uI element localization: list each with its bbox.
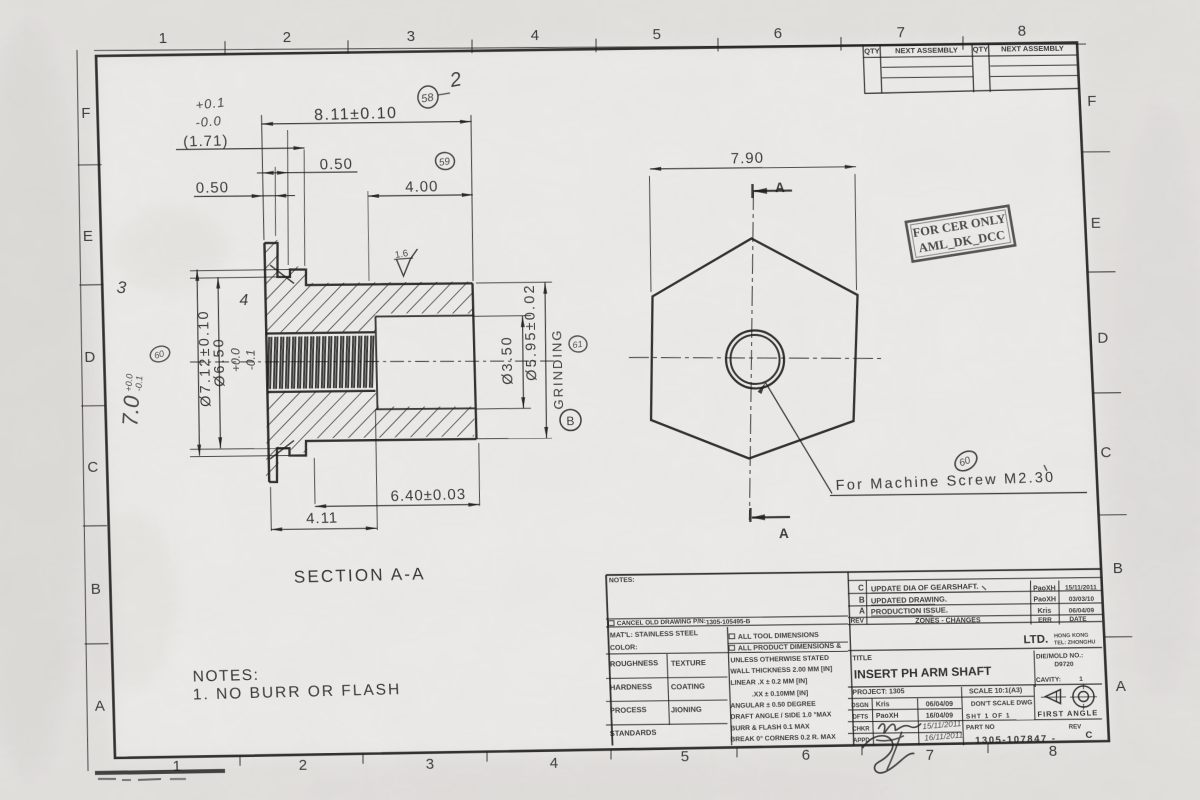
- balloon B: [560, 409, 582, 430]
- svg-text:A: A: [95, 698, 105, 715]
- zone ticks top edge: [224, 41, 227, 55]
- handwritten 7.0 +0.0/-0.1 far left: [117, 373, 145, 427]
- svg-text:DIE/MOLD NO.:: DIE/MOLD NO.:: [1036, 652, 1084, 660]
- dim 6.40: [314, 458, 316, 504]
- circled 60 near hex: [951, 447, 980, 475]
- svg-text:ROUGHNESS: ROUGHNESS: [610, 658, 659, 668]
- svg-text:NOTES:: NOTES:: [609, 577, 635, 585]
- svg-text:4.11: 4.11: [306, 510, 339, 528]
- circled 59: [435, 151, 456, 170]
- svg-text:C: C: [1085, 730, 1092, 741]
- svg-text:E: E: [83, 228, 93, 245]
- svg-text:8.11±0.10: 8.11±0.10: [314, 105, 398, 124]
- svg-text:PART NO: PART NO: [966, 724, 995, 732]
- hexagon outline: [646, 237, 862, 459]
- svg-text:16/04/09: 16/04/09: [926, 712, 954, 719]
- svg-text:QTY: QTY: [973, 45, 989, 54]
- dim 4.11: [270, 487, 272, 531]
- svg-text:GRINDING: GRINDING: [549, 328, 566, 409]
- projection target symbol: [1073, 686, 1095, 707]
- cancel old drawing row: [606, 616, 848, 619]
- svg-text:(1.71): (1.71): [183, 132, 229, 150]
- svg-text:7.0: 7.0: [117, 394, 144, 427]
- svg-text:B: B: [1113, 560, 1123, 577]
- svg-text:TEL: ZHONGHU: TEL: ZHONGHU: [1054, 639, 1096, 646]
- svg-text:.XX ± 0.10MM [IN]: .XX ± 0.10MM [IN]: [752, 690, 808, 698]
- handwritten tick rev C row: [982, 586, 986, 590]
- dim dia 3.50: [474, 315, 531, 318]
- svg-text:HARDNESS: HARDNESS: [610, 682, 652, 692]
- svg-text:Kris: Kris: [1038, 608, 1052, 615]
- svg-text:1305-105495-B: 1305-105495-B: [706, 618, 751, 626]
- svg-text:8: 8: [1017, 23, 1026, 40]
- left column cells: [727, 627, 731, 745]
- flange chamfer top: [270, 265, 294, 284]
- svg-text:NEXT ASSEMBLY: NEXT ASSEMBLY: [895, 46, 958, 56]
- dim 8.11+-0.10: [262, 121, 472, 124]
- first angle cell: [1033, 685, 1036, 720]
- svg-text:59: 59: [438, 156, 451, 169]
- svg-text:COATING: COATING: [671, 682, 706, 692]
- svg-text:A: A: [775, 180, 785, 195]
- svg-text:SHT 1 OF 1: SHT 1 OF 1: [966, 712, 1011, 720]
- hex centerline vertical: [741, 190, 763, 520]
- dim 4.00: [368, 195, 473, 196]
- svg-text:06/04/09: 06/04/09: [926, 701, 954, 708]
- svg-text:7: 7: [896, 24, 905, 41]
- svg-text:REV: REV: [850, 617, 864, 624]
- circled 58: [416, 84, 440, 109]
- dim 0.50 upper: [257, 172, 358, 173]
- svg-text:PROJECT: 1305: PROJECT: 1305: [852, 688, 904, 696]
- svg-text:JIONING: JIONING: [671, 705, 702, 715]
- sheet outer margin line left: [69, 50, 97, 771]
- svg-text:B: B: [859, 595, 865, 604]
- leader for machine screw: [765, 382, 832, 494]
- title block outer lines: [606, 575, 613, 746]
- project / scale row: [848, 696, 1034, 698]
- svg-text:DSGN: DSGN: [851, 703, 869, 709]
- tool dimensions checkboxes: [728, 642, 849, 643]
- svg-text:HONG KONG: HONG KONG: [1054, 633, 1089, 640]
- zone ticks right edge: [1082, 151, 1110, 153]
- svg-text:Ø3.50: Ø3.50: [499, 335, 516, 385]
- svg-text:6.40±0.03: 6.40±0.03: [390, 486, 466, 505]
- svg-text:3: 3: [425, 756, 434, 773]
- handwritten chkr signature: [878, 723, 921, 733]
- stamp FOR CER ONLY: [906, 206, 1015, 262]
- svg-text:QTY: QTY: [864, 46, 880, 55]
- svg-text:6: 6: [801, 747, 810, 764]
- svg-text:B: B: [566, 414, 574, 428]
- svg-text:A: A: [859, 607, 865, 616]
- dim dia 5.95: [476, 282, 552, 283]
- svg-text:A: A: [779, 526, 789, 541]
- svg-text:5: 5: [652, 26, 661, 43]
- hex centerline horizontal: [629, 354, 885, 361]
- hatching top band: [263, 238, 474, 333]
- svg-text:4: 4: [530, 27, 539, 44]
- svg-text:PaoXH: PaoXH: [876, 713, 899, 720]
- drawing frame border: [0, 0, 1, 1]
- circled 61: [568, 335, 588, 354]
- dim 0.50 lower: [194, 195, 295, 196]
- svg-text:1305-107847 -: 1305-107847 -: [975, 733, 1057, 746]
- svg-text:2: 2: [298, 757, 307, 774]
- projection cone symbol: [1045, 690, 1060, 704]
- flange chamfer bottom: [269, 441, 294, 459]
- part right face: [472, 283, 476, 439]
- section view part outline top profile: [264, 241, 472, 286]
- svg-text:4: 4: [239, 292, 248, 309]
- svg-text:TEXTURE: TEXTURE: [671, 658, 706, 668]
- svg-text:F: F: [1087, 93, 1097, 110]
- svg-text:C: C: [87, 459, 98, 476]
- hatching bottom band: [264, 389, 477, 479]
- svg-text:STANDARDS: STANDARDS: [610, 728, 657, 738]
- svg-text:ZONES - CHANGES: ZONES - CHANGES: [915, 617, 981, 625]
- svg-text:LTD.: LTD.: [1023, 634, 1048, 647]
- svg-text:Kris: Kris: [876, 701, 890, 708]
- svg-text:FIRST ANGLE: FIRST ANGLE: [1037, 708, 1098, 719]
- svg-text:7: 7: [925, 747, 934, 764]
- svg-text:-0.1: -0.1: [134, 375, 145, 391]
- svg-text:4: 4: [549, 755, 558, 772]
- svg-text:03/03/10: 03/03/10: [1069, 596, 1095, 603]
- svg-text:0.50: 0.50: [319, 156, 353, 174]
- svg-text:-0.1: -0.1: [244, 349, 259, 370]
- title block vertical main divider: [848, 572, 854, 745]
- svg-text:NOTES:: NOTES:: [192, 667, 259, 686]
- hex hole inner circle: [730, 335, 780, 385]
- company LTD row: [848, 647, 1102, 650]
- part left face: [263, 243, 271, 482]
- svg-text:1: 1: [1079, 676, 1083, 683]
- svg-text:Ø5.95±0.02: Ø5.95±0.02: [522, 283, 541, 381]
- sign-off rows: [848, 709, 962, 710]
- svg-text:7.90: 7.90: [730, 150, 764, 168]
- svg-text:D: D: [84, 349, 95, 366]
- svg-text:61: 61: [572, 339, 584, 350]
- bottom-left dark scale bar: [95, 771, 225, 773]
- svg-text:D9720: D9720: [1054, 661, 1074, 668]
- svg-text:5: 5: [680, 748, 689, 765]
- handwritten appd signature: [862, 735, 915, 773]
- svg-text:8: 8: [1049, 743, 1058, 760]
- svg-text:DFTS: DFTS: [853, 714, 869, 720]
- svg-text:NEXT ASSEMBLY: NEXT ASSEMBLY: [1001, 44, 1064, 54]
- svg-text:6: 6: [773, 25, 782, 42]
- section cut arrow bottom: [749, 508, 752, 522]
- svg-text:C: C: [858, 583, 864, 592]
- svg-text:B: B: [91, 581, 101, 598]
- qty next-assembly table top right: [863, 45, 865, 93]
- title cell: [848, 684, 1102, 687]
- zone ticks bottom edge: [239, 756, 241, 766]
- section cut arrow top: [751, 184, 754, 198]
- svg-text:PROCESS: PROCESS: [610, 705, 647, 715]
- svg-text:E: E: [1091, 215, 1101, 232]
- material color cell: [606, 651, 848, 654]
- svg-text:PaoXH: PaoXH: [1033, 596, 1056, 603]
- svg-text:CAVITY:: CAVITY:: [1036, 676, 1061, 684]
- counterbore top line: [375, 315, 473, 316]
- svg-text:1: 1: [158, 30, 167, 47]
- svg-text:4.00: 4.00: [405, 178, 439, 196]
- svg-text:15/11/2011: 15/11/2011: [1065, 584, 1097, 591]
- svg-text:06/04/09: 06/04/09: [1069, 607, 1095, 614]
- dim 8.11 ext lines: [261, 115, 265, 240]
- svg-text:C: C: [1100, 444, 1111, 461]
- svg-text:COLOR:: COLOR:: [610, 644, 638, 652]
- svg-text:PaoXH: PaoXH: [1033, 585, 1056, 592]
- svg-text:A: A: [1116, 678, 1126, 695]
- hex hole outer circle: [725, 330, 785, 389]
- circled 60 left: [148, 343, 172, 364]
- dim (1.71): [176, 148, 305, 150]
- dim dia 6.50: [190, 277, 278, 278]
- ext lines small steps: [274, 167, 277, 236]
- thread boundary top: [265, 332, 375, 333]
- svg-text:SCALE 10:1(A3): SCALE 10:1(A3): [969, 687, 1023, 695]
- svg-text:ERR: ERR: [1038, 617, 1052, 624]
- handwritten +0.0/-0.1 near thread: [229, 348, 259, 372]
- zone ticks left edge: [78, 164, 102, 166]
- svg-text:2: 2: [283, 29, 292, 46]
- dim dia 7.12: [190, 270, 290, 271]
- svg-text:D: D: [1097, 330, 1108, 347]
- thread crests: [266, 337, 270, 389]
- svg-text:F: F: [81, 105, 91, 122]
- svg-text:-0.0: -0.0: [195, 113, 223, 130]
- svg-text:+0.0: +0.0: [229, 348, 244, 372]
- svg-text:CHKR: CHKR: [852, 726, 870, 732]
- counterbore bottom line: [376, 408, 475, 409]
- thread boundary bottom: [267, 391, 375, 392]
- svg-text:Ø6.50: Ø6.50: [211, 337, 228, 387]
- dim 7.90: [648, 176, 653, 292]
- sheet outer margin line top: [94, 39, 1086, 56]
- counterbore floor: [375, 316, 378, 409]
- part outline bottom profile: [268, 439, 477, 482]
- svg-text:SECTION A-A: SECTION A-A: [293, 564, 426, 586]
- revision table lines: [848, 577, 1102, 580]
- part centerline: [190, 358, 558, 366]
- svg-text:DATE: DATE: [1069, 616, 1087, 623]
- svg-text:0.50: 0.50: [196, 179, 230, 197]
- svg-text:TITLE: TITLE: [852, 655, 872, 663]
- svg-text:REV: REV: [1069, 724, 1082, 730]
- svg-text:3: 3: [407, 28, 416, 45]
